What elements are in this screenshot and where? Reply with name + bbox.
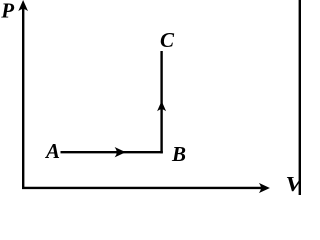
svg-text:B: B xyxy=(171,142,186,166)
svg-text:A: A xyxy=(44,139,60,163)
process line B to C xyxy=(160,51,162,153)
P axis (vertical axis line) xyxy=(22,8,24,188)
P axis arrowhead xyxy=(19,1,27,11)
svg-text:P: P xyxy=(0,0,14,22)
process line A to B xyxy=(61,151,163,153)
svg-text:V: V xyxy=(285,172,301,195)
svg-text:C: C xyxy=(160,28,175,52)
arrowhead on B-C line xyxy=(158,102,166,111)
V axis arrowhead xyxy=(260,184,270,193)
V axis (horizontal axis line) xyxy=(22,187,261,189)
right border line xyxy=(299,0,301,195)
arrowhead on A-B line xyxy=(116,148,125,157)
